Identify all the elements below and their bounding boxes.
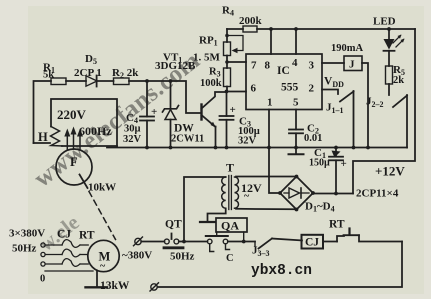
watermark red diagonal: [29, 47, 205, 256]
wire bridge+ to C1 bottom: [313, 193, 353, 195]
svg-text:50Hz: 50Hz: [170, 251, 195, 263]
svg-text:C: C: [226, 253, 234, 264]
capacitor C2: [289, 110, 303, 150]
svg-text:200k: 200k: [239, 15, 263, 27]
wire pin 7: [227, 61, 246, 63]
svg-text:13kW: 13kW: [100, 280, 130, 292]
svg-text:+12V: +12V: [375, 164, 405, 179]
svg-text:600Hz: 600Hz: [79, 124, 112, 138]
wire pin 1: [267, 110, 271, 150]
svg-text:J: J: [349, 59, 355, 71]
capacitor C4: [140, 79, 154, 149]
svg-text:6: 6: [251, 83, 257, 95]
svg-text:30µ: 30µ: [124, 124, 141, 135]
svg-text:QA: QA: [221, 219, 239, 233]
svg-text:3: 3: [309, 60, 315, 72]
svg-text:3DG12B: 3DG12B: [155, 60, 196, 72]
wire right edge +12V down: [353, 29, 415, 194]
resistor R5: [386, 66, 393, 95]
generator output box 220V 600Hz: [51, 99, 117, 147]
wire transformer secondary bottom to bridge: [236, 208, 297, 211]
svg-text:1: 1: [267, 97, 273, 109]
wire top rail +12V: [227, 28, 243, 30]
transistor VT1: [202, 92, 227, 149]
wire R1 to D5: [66, 80, 86, 82]
wire pin 4: [294, 27, 298, 54]
svg-text:2CW11: 2CW11: [171, 134, 204, 145]
svg-text:2CP 1: 2CP 1: [74, 67, 102, 79]
svg-text:+: +: [341, 158, 347, 170]
svg-text:T: T: [226, 161, 234, 175]
motor M: [88, 240, 119, 271]
svg-text:2k: 2k: [393, 75, 404, 86]
svg-text:555: 555: [281, 82, 299, 94]
wire pin 3: [322, 62, 344, 64]
earth under motor: [86, 271, 108, 288]
svg-text:QT: QT: [165, 219, 182, 231]
svg-text:D1~D4: D1~D4: [305, 201, 335, 214]
wire exciter loop left: [34, 81, 52, 143]
neutral line 0: [45, 270, 93, 272]
ground rail: [107, 147, 407, 149]
wire transformer primary bottom to earth: [200, 209, 226, 223]
svg-text:5: 5: [293, 97, 299, 109]
svg-text:7: 7: [251, 60, 257, 72]
svg-text:F: F: [70, 155, 78, 169]
svg-text:ybx8.cn: ybx8.cn: [251, 263, 312, 279]
svg-text:100k: 100k: [200, 78, 222, 89]
contact J2-2: [393, 95, 407, 149]
op-amp U1 555 IC box: [246, 54, 322, 110]
switch QT: [164, 234, 183, 248]
zener DW: [163, 79, 179, 149]
wire H lead: [34, 142, 51, 144]
svg-text:5k: 5k: [43, 70, 54, 81]
svg-text:190mA: 190mA: [331, 43, 363, 54]
svg-text:4: 4: [292, 57, 298, 69]
svg-text:~: ~: [100, 261, 106, 272]
svg-text:8: 8: [265, 60, 271, 72]
arrows from F into box: [64, 127, 83, 150]
wire R2 to VT1 base node: [129, 81, 201, 113]
wire bridge minus to ground rail: [269, 148, 280, 194]
relay coil J: [344, 56, 370, 149]
generator F: [56, 149, 92, 185]
contactor CJ main contacts and RT heaters on phase lines: [45, 240, 88, 267]
exciter winding H: [51, 127, 63, 147]
svg-text:+: +: [151, 106, 157, 118]
svg-text:150µ: 150µ: [309, 158, 330, 169]
three phase terminals: [41, 243, 45, 266]
supply terminal phi bottom: [150, 283, 159, 291]
svg-text:32V: 32V: [123, 134, 142, 145]
wire pin 2: [322, 90, 338, 95]
supply terminal phi left: [134, 237, 143, 246]
svg-text:IC: IC: [277, 65, 290, 77]
svg-text:3×380V: 3×380V: [9, 228, 45, 240]
svg-text:32V: 32V: [238, 136, 257, 147]
svg-text:2CP11×4: 2CP11×4: [356, 188, 399, 200]
wire control loop right and bottom: [158, 242, 402, 288]
wire QT to QA: [179, 241, 208, 243]
svg-text:2: 2: [309, 83, 315, 95]
wire transformer secondary top to bridge: [236, 176, 297, 178]
svg-text:1. 5M: 1. 5M: [193, 52, 221, 64]
pushbutton QA: [206, 218, 247, 252]
svg-text:CJ: CJ: [305, 237, 319, 249]
contact J1-3: [255, 239, 302, 249]
svg-text:~: ~: [244, 191, 250, 202]
ground symbol under rail: [289, 148, 304, 155]
wire QA to J1-3: [228, 241, 255, 243]
wire pin 8: [269, 27, 273, 54]
transformer T: [222, 176, 239, 210]
svg-text:0.01: 0.01: [304, 133, 322, 144]
capacitor C1: [329, 146, 343, 196]
wire terminal to QT: [141, 241, 164, 243]
LED: [384, 27, 405, 66]
svg-text:10kW: 10kW: [88, 182, 116, 194]
capacitor C3: [220, 92, 234, 150]
resistor R1: [51, 78, 66, 85]
resistor R4: [243, 26, 257, 32]
svg-text:0: 0: [40, 274, 45, 285]
diode D5: [86, 76, 97, 87]
wire transformer primary top: [182, 177, 226, 243]
wire pin 6: [227, 91, 247, 93]
svg-text:50Hz: 50Hz: [12, 243, 37, 255]
svg-text:LED: LED: [373, 16, 396, 28]
svg-text:R2 2k: R2 2k: [112, 67, 139, 80]
shaft F to M solid then dashed: [80, 175, 116, 240]
resistor R3: [224, 60, 231, 93]
contact J1-1: [340, 91, 355, 149]
svg-text:RT: RT: [79, 230, 95, 242]
svg-text:CJ: CJ: [57, 229, 71, 241]
bridge rectifier D1-D4: [278, 175, 315, 212]
svg-text:RT: RT: [329, 219, 345, 231]
svg-text:H: H: [38, 130, 48, 144]
svg-text:220V: 220V: [57, 107, 87, 122]
svg-text:~380V: ~380V: [122, 250, 152, 262]
wire D5 to R2: [98, 80, 114, 82]
thermal relay RT contact: [337, 229, 402, 242]
resistor R2: [114, 78, 130, 85]
contactor coil CJ box: [302, 235, 338, 249]
potentiometer RP1: [224, 29, 244, 68]
svg-text:+: +: [230, 104, 236, 116]
